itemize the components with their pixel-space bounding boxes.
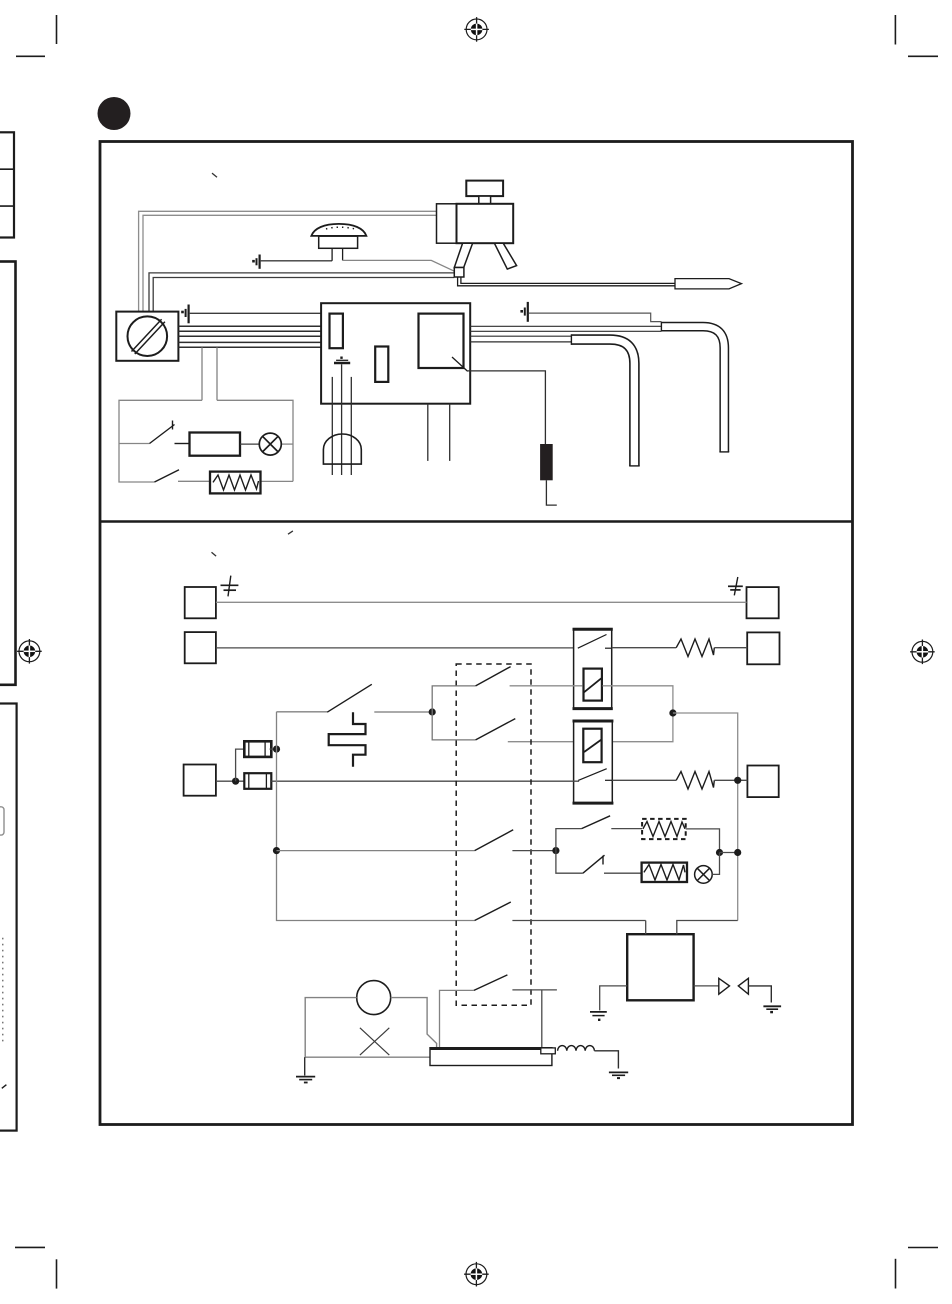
ground G6 [763, 1006, 781, 1013]
switch S3a [476, 667, 511, 686]
wire N5 to selector S3a [432, 686, 475, 712]
wire box stub left [645, 921, 647, 935]
wire F1 to node N4 [270, 748, 277, 750]
thermal cutout meander [329, 712, 366, 767]
bullet [98, 97, 131, 130]
valve X symbol [360, 1028, 389, 1055]
wire drops to interlock circuit [202, 347, 217, 400]
wire R3 to X6 [714, 779, 747, 781]
switch S3d [475, 902, 511, 921]
interlock circuit loop [119, 400, 293, 482]
diode D2 [738, 978, 748, 994]
node N7 [552, 847, 559, 854]
gas valve unit [116, 312, 178, 361]
wire ground G1 to piezo stem [261, 260, 332, 262]
wire K1 to lamp [240, 443, 259, 445]
relay K2 contact [578, 635, 612, 649]
fuse F2 [244, 773, 271, 789]
wire box to ground G5 [600, 986, 628, 1011]
switch S3b [476, 719, 516, 740]
node N3 [232, 778, 239, 785]
wire middle pair to pilot connector [149, 273, 454, 312]
wire supply loop [277, 712, 475, 921]
relay K3 coil [583, 729, 601, 763]
wire top pair to burner unit [139, 211, 437, 311]
wire N5 to selector S3b [432, 712, 475, 740]
node N8 [716, 849, 723, 856]
ground G8 [609, 1072, 628, 1079]
control box [321, 303, 470, 404]
wire to ground G7 [304, 1057, 306, 1075]
wire S3d to igniter box [512, 920, 645, 922]
heater element [430, 1048, 555, 1066]
selector dashed box [456, 664, 531, 1005]
wire S2 to node N5 [374, 711, 432, 713]
wire drops control box [332, 364, 449, 475]
terminal X4 [747, 587, 779, 618]
node N1 [669, 709, 676, 716]
terminal X6 [747, 766, 778, 798]
wire lamp to N8 [712, 853, 719, 875]
ground G2 [181, 305, 188, 324]
ground G7 [296, 1077, 315, 1083]
wire electrode tail [546, 480, 556, 505]
relay K3 contact [578, 769, 612, 781]
node N9 [734, 849, 741, 856]
pilot burner assembly [437, 181, 517, 277]
node N2 [734, 777, 741, 784]
lamp H1 [259, 433, 281, 455]
terminal X2 [185, 632, 216, 663]
wire R4 to node N8 [686, 829, 720, 853]
piezo igniter button [311, 224, 366, 261]
switch S3c [475, 830, 514, 851]
earth symbol right [728, 577, 743, 595]
fuse F1 [244, 741, 271, 757]
lamp H2 [695, 866, 713, 884]
wire row3 X3 to relay K3 [216, 780, 244, 782]
ground G3 [334, 357, 350, 364]
earth symbol left [221, 576, 239, 597]
wire box stub right [677, 921, 738, 935]
inductor L1 [558, 1046, 595, 1051]
wire coil K2 feed [510, 685, 583, 687]
wire S3e contact [512, 990, 557, 1048]
wire N7 to S4 [556, 829, 582, 851]
relay K2 box [573, 629, 613, 709]
igniter control box [627, 934, 693, 1000]
module C [419, 314, 464, 368]
resistor R4 dashed case [642, 819, 686, 839]
resistor R1 [210, 472, 261, 494]
stray mark [212, 552, 217, 556]
terminal X3 [184, 765, 216, 796]
relay K2 coil [584, 669, 602, 701]
resistor R3 [676, 772, 714, 790]
wire coil K3 feed [508, 741, 583, 743]
motor M1 [357, 981, 391, 1015]
resistor R2 [676, 639, 714, 657]
wire piezo to pilot foot [343, 260, 455, 271]
node N6 [273, 847, 280, 854]
module A [330, 314, 343, 349]
switch S4 [582, 816, 611, 829]
wire F2 to relay K3 [271, 780, 579, 782]
relay K3 box [573, 721, 614, 804]
wire N6 to S3c [277, 850, 475, 852]
wire node N1 to bus [673, 713, 738, 921]
burner bell [323, 434, 361, 464]
wire S3c to node N7 [512, 850, 556, 852]
terminal X1 [185, 587, 216, 618]
wire spark lead [452, 357, 468, 371]
switch S3e [474, 975, 508, 991]
spark electrode [540, 444, 553, 480]
resistor R5 boxed [642, 863, 687, 882]
wire S3e drop [440, 990, 474, 1057]
wire R2 to X5 [714, 647, 747, 649]
switch S2 main [327, 684, 372, 712]
ground G5 [590, 1012, 607, 1021]
switch S1b [155, 470, 180, 482]
ground G1 [252, 255, 259, 269]
thermocouple probe [458, 277, 742, 289]
switch S5 [583, 855, 605, 873]
wire ground G4 to electrode sheath [529, 313, 662, 322]
wire motor loop [305, 998, 437, 1058]
switch S1a [150, 421, 190, 444]
terminal X5 [747, 632, 779, 664]
node N5 [429, 708, 436, 715]
wire S4 to R4 [611, 828, 642, 830]
wire S5 to R5 [604, 872, 642, 874]
electrode sheath tube 2 [661, 322, 729, 452]
wires control box to sheaths [470, 326, 661, 342]
LEFT SIDEBAR [0, 132, 17, 1130]
wire row2 X2 to relay K2 [216, 647, 574, 649]
module B [375, 347, 388, 382]
wire bundle valve to control box [178, 326, 321, 347]
main frame [100, 142, 853, 1125]
relay coil K1 [190, 433, 241, 456]
wire K3 to resistor R3 [612, 779, 676, 781]
wire L1 to ground G8 [594, 1051, 618, 1069]
wire N8 to bus [720, 852, 738, 854]
wire row1 X1 to X4 [216, 601, 747, 603]
wire N3 to fuse F1 [236, 749, 245, 781]
stray mark [288, 531, 293, 534]
stray mark [212, 173, 217, 177]
wire box to diodes [694, 985, 719, 987]
diode D1 [719, 978, 730, 994]
wire ground G2 to control box [190, 312, 321, 314]
panel divider [100, 520, 853, 523]
wire K2 to resistor R2 [612, 647, 677, 649]
electrode sheath tube 1 [571, 334, 639, 466]
wire diodes to ground G6 [748, 986, 771, 1003]
wire N7 to S5 [556, 851, 583, 874]
ground G4 [520, 302, 527, 322]
node N4 [273, 746, 280, 753]
